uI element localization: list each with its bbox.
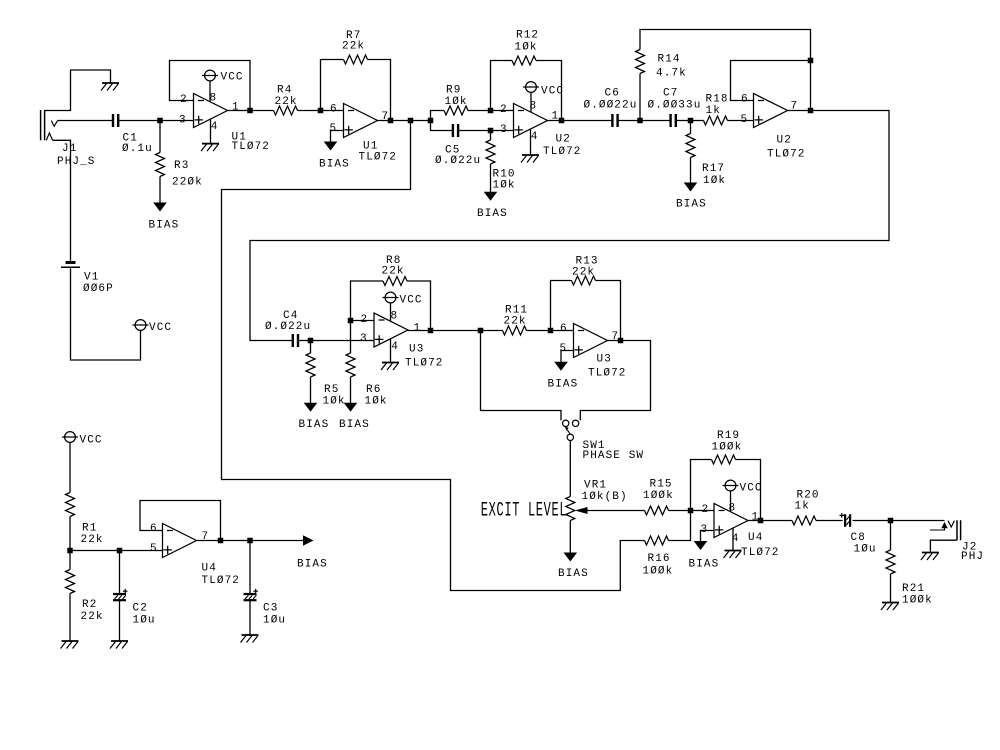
wire U1a pin 4 to ground — [210, 120, 212, 144]
svg-text:1Øk(B): 1Øk(B) — [582, 491, 628, 503]
wire node K down to R17 — [690, 121, 692, 134]
VCC label at U4b — [740, 483, 763, 495]
wire node O up to R8 — [351, 281, 384, 321]
R1 value label — [81, 534, 104, 546]
U2b pin 6 label — [741, 94, 749, 106]
C8 value label — [854, 544, 877, 556]
wire R8 down to U3a output node — [407, 281, 431, 331]
svg-text:1Øk: 1Øk — [365, 396, 388, 408]
ground symbol at U3a pin 4 — [381, 363, 399, 371]
U4b pin 4 label — [732, 533, 740, 545]
R20 reference label — [797, 490, 820, 502]
C1 value label — [122, 143, 153, 155]
R7 reference label — [346, 30, 361, 42]
svg-text:22k: 22k — [275, 96, 298, 108]
BIAS tail arrow below R5 — [304, 403, 318, 412]
svg-text:4: 4 — [391, 341, 399, 353]
C2 value label — [133, 615, 156, 627]
wire C5 to node H — [458, 130, 490, 132]
svg-text:R4: R4 — [277, 85, 292, 97]
wire J1 tip to C1 — [58, 120, 113, 122]
node I at U2a output — [559, 118, 565, 124]
C4 reference label — [283, 310, 298, 322]
wire node L down to output node — [810, 61, 812, 111]
svg-text:5: 5 — [150, 543, 158, 555]
switch SW1 pole contact — [567, 434, 573, 440]
U3b pin 5 label — [560, 343, 568, 355]
svg-text:U4: U4 — [748, 532, 763, 544]
node G junction R9/R12/U2 pin2 — [488, 108, 494, 114]
svg-text:6: 6 — [150, 523, 158, 535]
C1 reference label — [123, 133, 138, 145]
capacitor C7 — [671, 114, 676, 127]
op-amp U1 (second half) — [344, 104, 378, 138]
R18 reference label — [706, 94, 729, 106]
R21 reference label — [902, 583, 925, 595]
node Z at U4a output — [218, 538, 224, 544]
wire C8 to node W — [853, 520, 891, 522]
wire R20 to C8 — [816, 520, 843, 522]
wire R10 to BIAS arrow — [490, 164, 492, 192]
resistor R13 — [572, 276, 596, 285]
R6 reference label — [366, 384, 381, 396]
R16 reference label — [648, 553, 671, 565]
J2 reference label — [962, 542, 977, 554]
BIAS net label below U4b pin3 — [689, 559, 720, 571]
U4b pin 3 label — [701, 524, 709, 536]
U3a reference label — [409, 344, 424, 356]
U2b pin 5 label — [741, 114, 749, 126]
R16 value label — [643, 566, 674, 578]
resistor R21 — [886, 550, 895, 574]
svg-text:VCC: VCC — [541, 86, 564, 98]
svg-text:2: 2 — [180, 94, 188, 106]
U4a value label — [202, 575, 241, 587]
U4a pin 5 label — [150, 543, 158, 555]
svg-text:1Øk: 1Øk — [703, 175, 726, 187]
U2a pin 2 label — [500, 104, 508, 116]
node K junction C7/R17/R18 — [688, 118, 694, 124]
wire U4a feedback pin7 to pin6 — [140, 501, 221, 541]
BIAS net label below R3 — [149, 220, 180, 232]
U4b value label — [741, 547, 780, 559]
wire node R to U3b pin 6 — [551, 330, 574, 332]
svg-text:R19: R19 — [717, 430, 740, 442]
BIAS tail arrow below R10 — [484, 192, 498, 201]
svg-text:1Øk: 1Øk — [493, 180, 516, 192]
power VCC symbol at U4b pin 8 — [723, 480, 739, 491]
svg-text:R15: R15 — [650, 479, 673, 491]
svg-text:PHJ: PHJ — [961, 551, 984, 563]
U3a pin 1 label — [414, 323, 422, 335]
svg-text:R5: R5 — [324, 384, 339, 396]
R12 reference label — [516, 30, 539, 42]
R7 value label — [342, 41, 365, 53]
svg-text:8: 8 — [729, 503, 737, 515]
wire dry signal to lower mixer bus — [222, 121, 645, 591]
wire VCC to U3a pin 8 — [390, 303, 392, 321]
wire U4b pin 4 to ground — [732, 527, 734, 550]
U2a value label — [543, 146, 582, 158]
wire U1b pin 5 stub — [331, 131, 344, 143]
wire U1b output run — [378, 120, 431, 122]
svg-text:U2: U2 — [556, 134, 571, 146]
U4b pin 2 label — [702, 504, 710, 516]
op-amp U2 (second half) — [754, 94, 788, 128]
resistor R18 — [704, 116, 728, 125]
wire node AA down to C3 — [249, 541, 251, 595]
svg-text:1Øu: 1Øu — [133, 615, 156, 627]
ground symbol below R21 — [881, 603, 899, 611]
svg-text:6: 6 — [741, 94, 749, 106]
U3b pin 6 label — [560, 323, 568, 335]
wire VR1 bottom to BIAS arrow — [569, 521, 571, 554]
wire R4 to node C — [298, 110, 321, 112]
resistor R12 — [512, 56, 536, 65]
wire node C up to R7 — [321, 60, 344, 111]
svg-text:C6: C6 — [605, 88, 620, 100]
U1a pin 8 label — [210, 93, 218, 105]
wire node X to node Y — [70, 550, 120, 552]
R5 reference label — [324, 384, 339, 396]
wire VCC to U2a pin 8 — [530, 92, 532, 112]
svg-text:TLØ72: TLØ72 — [359, 152, 398, 164]
U1a pin 4 label — [211, 121, 219, 133]
svg-text:3: 3 — [360, 333, 368, 345]
R11 reference label — [505, 305, 528, 317]
svg-text:R18: R18 — [706, 94, 729, 106]
R9 value label — [445, 96, 468, 108]
svg-text:2: 2 — [500, 104, 508, 116]
node A junction C1/R3/U1 pin3 — [157, 118, 163, 124]
power VCC symbol at U3a pin 8 — [383, 292, 399, 303]
wire R17 to BIAS arrow — [690, 158, 692, 184]
VCC label at U2a — [541, 86, 564, 98]
wire C7 to node K — [676, 120, 691, 122]
wire R2 to ground — [69, 594, 71, 641]
wire node H to U2a pin 3 — [491, 130, 514, 132]
R21 value label — [902, 595, 933, 607]
wire node A down to R3 — [159, 121, 161, 153]
C7 reference label — [663, 88, 678, 100]
U4a reference label — [202, 563, 217, 575]
R1 reference label — [82, 523, 97, 535]
wire U3a pin 4 to ground — [390, 339, 392, 363]
U2b value label — [767, 149, 806, 161]
R4 reference label — [277, 85, 292, 97]
capacitor C2 electrolytic — [113, 589, 128, 600]
wire U4b output to R20 — [748, 520, 792, 522]
svg-text:1: 1 — [414, 323, 422, 335]
BIAS net label below R10 — [477, 208, 508, 220]
wire C1 to node A — [119, 120, 160, 122]
wire U2a pin 4 to ground — [530, 129, 532, 155]
wire U3b pin 5 stub — [561, 351, 574, 363]
R10 reference label — [493, 169, 516, 181]
svg-text:22Øk: 22Øk — [172, 177, 203, 189]
svg-text:22k: 22k — [81, 534, 104, 546]
wire node A to U1 pin 3 — [160, 120, 194, 122]
R5 value label — [323, 396, 346, 408]
R14 reference label — [658, 54, 681, 66]
svg-text:1ØØk: 1ØØk — [712, 442, 743, 454]
U2a pin 4 label — [531, 131, 539, 143]
wire R3 to BIAS arrow — [159, 177, 161, 203]
VCC label at bias divider — [80, 435, 103, 447]
svg-text:22k: 22k — [342, 41, 365, 53]
ground symbol at U1a pin 4 — [201, 144, 219, 152]
op-amp U4 (first half) — [163, 524, 197, 558]
wire battery V1 to VCC symbol — [71, 268, 141, 360]
svg-text:5: 5 — [330, 123, 338, 135]
svg-text:VCC: VCC — [740, 483, 763, 495]
wire node X to R2 — [69, 551, 71, 570]
resistor R17 — [686, 134, 695, 158]
wire node N to U3a pin 3 — [311, 340, 375, 342]
svg-text:TLØ72: TLØ72 — [543, 146, 582, 158]
wire R12 down to U2a output node — [536, 61, 562, 121]
BIAS tail arrow below VR1 — [564, 553, 578, 562]
wire node U to U4b pin 2 — [691, 510, 715, 512]
svg-text:4: 4 — [211, 121, 219, 133]
U3a pin 4 label — [391, 341, 399, 353]
switch SW1 left contact — [563, 420, 569, 426]
BIAS net label below U3b pin5 — [548, 379, 579, 391]
svg-text:4.7k: 4.7k — [656, 68, 687, 80]
resistor R1 — [66, 493, 75, 517]
svg-text:1k: 1k — [795, 501, 810, 513]
R14 value label — [656, 68, 687, 80]
U2b reference label — [777, 135, 792, 147]
switch SW1 lever arrow — [565, 427, 571, 435]
V1 value label — [83, 283, 114, 295]
node N junction C4/R5/U3 pin3 — [308, 338, 314, 344]
resistor R3 — [156, 153, 165, 177]
node C junction R4/R7/U1 pin6 — [318, 108, 324, 114]
wire node Y down to C2 — [119, 551, 121, 595]
svg-text:1Øu: 1Øu — [854, 544, 877, 556]
svg-text:2: 2 — [361, 314, 369, 326]
svg-text:BIAS: BIAS — [548, 379, 579, 391]
battery V1 — [61, 263, 80, 268]
op-amp U2 (first half) — [514, 104, 548, 138]
wire J1 frame to chassis ground — [45, 70, 111, 111]
svg-text:7: 7 — [202, 531, 210, 543]
BIAS source arrow right — [303, 535, 314, 545]
wire U4a output to BIAS arrow — [197, 540, 304, 542]
SW1 value label — [583, 450, 645, 462]
wire U1a feedback loop pin1 to pin2 — [170, 61, 251, 111]
wire VR1 wiper to R15 — [588, 510, 645, 512]
C6 value label — [584, 100, 638, 112]
svg-text:1: 1 — [232, 102, 240, 114]
U2a pin 3 label — [500, 124, 508, 136]
svg-text:1Øk: 1Øk — [445, 96, 468, 108]
svg-text:VCC: VCC — [400, 295, 423, 307]
svg-text:BIAS: BIAS — [319, 159, 350, 171]
wire node Y to U4a pin 5 — [120, 550, 163, 552]
C7 value label — [648, 100, 702, 112]
node J junction C6/C7/R14 — [637, 118, 643, 124]
svg-text:R3: R3 — [174, 160, 189, 172]
node X bias divider midpoint — [67, 548, 73, 554]
C3 reference label — [263, 603, 278, 615]
R18 value label — [706, 105, 721, 117]
svg-text:R1: R1 — [82, 523, 97, 535]
svg-text:6: 6 — [330, 103, 338, 115]
wire node U up to R19 — [691, 460, 712, 511]
node V at U4b output — [758, 518, 764, 524]
wire R21 to ground — [890, 574, 892, 602]
capacitor C4 — [293, 334, 298, 347]
capacitor C8 electrolytic — [840, 513, 851, 527]
resistor R14 — [636, 50, 645, 74]
BIAS net label below R5 — [299, 419, 330, 431]
BIAS net label below R17 — [676, 199, 707, 211]
node E dry-signal tap — [408, 118, 414, 124]
node Y junction C2/U4 pin5 — [117, 548, 123, 554]
U1b reference label — [363, 141, 378, 153]
node R junction R11/R13/U3 pin6 — [548, 328, 554, 334]
resistor R5 — [306, 353, 315, 377]
ground chassis symbol at J1 — [101, 83, 119, 91]
R2 reference label — [82, 599, 97, 611]
R15 value label — [643, 490, 674, 502]
wire U1a output to R4 — [228, 110, 274, 112]
R20 value label — [795, 501, 810, 513]
svg-text:U2: U2 — [777, 135, 792, 147]
power VCC symbol at U1a pin 8 — [202, 70, 218, 81]
wire R1 to node X — [69, 517, 71, 551]
svg-text:EXCIT LEVEL: EXCIT LEVEL — [481, 499, 567, 522]
capacitor C6 — [612, 114, 617, 127]
svg-text:PHJ_S: PHJ_S — [57, 156, 96, 168]
wire R19 down to U4b output node — [736, 460, 761, 521]
U2a pin 8 label — [530, 101, 538, 113]
resistor R16 — [645, 536, 669, 545]
ground symbol at U2a pin 4 — [521, 155, 539, 163]
J1 value label — [57, 156, 96, 168]
wire U2b feedback pin6 loop — [731, 61, 811, 101]
BIAS net label below VR1 — [558, 568, 589, 580]
svg-text:C3: C3 — [263, 603, 278, 615]
svg-text:TLØ72: TLØ72 — [202, 575, 241, 587]
resistor R2 — [66, 570, 75, 594]
U4b pin 8 label — [729, 503, 737, 515]
capacitor C5 — [453, 124, 458, 137]
resistor R10 — [486, 140, 495, 164]
svg-text:R21: R21 — [902, 583, 925, 595]
R17 value label — [703, 175, 726, 187]
svg-text:1Øk: 1Øk — [323, 396, 346, 408]
wire node J to C7 — [640, 120, 671, 122]
U1b value label — [359, 152, 398, 164]
U1a pin 2 label — [180, 94, 188, 106]
wire R14 top feedback to U2b output — [640, 30, 811, 61]
U3a value label — [405, 358, 444, 370]
svg-text:1Øk: 1Øk — [515, 42, 538, 54]
U3b pin 7 label — [612, 331, 620, 343]
BIAS tail arrow below R17 — [684, 183, 698, 192]
svg-text:R2: R2 — [82, 599, 97, 611]
R3 reference label — [174, 160, 189, 172]
connector J2 output phone jack PHJ — [930, 520, 961, 540]
VR1 value label — [582, 491, 628, 503]
svg-text:VR1: VR1 — [584, 480, 607, 492]
U3b value label — [588, 368, 627, 380]
wire J2 sleeve to ground — [930, 540, 957, 552]
op-amp U4 (second half) — [714, 504, 748, 538]
U2a pin 1 label — [552, 111, 560, 123]
svg-text:U4: U4 — [202, 563, 217, 575]
resistor R6 — [346, 353, 355, 377]
U4a pin 6 label — [150, 523, 158, 535]
svg-text:1ØØk: 1ØØk — [643, 490, 674, 502]
C4 value label — [265, 321, 311, 333]
wire R18 to U2b pin 5 — [728, 120, 754, 122]
wire VCC to U1a pin 8 — [209, 81, 211, 102]
BIAS tail arrow below R3 — [153, 203, 167, 212]
op-amp U3 (second half) — [574, 324, 608, 358]
EXCIT LEVEL label — [481, 499, 567, 522]
wire VCC to R1 — [69, 442, 71, 492]
U1b pin 5 label — [330, 123, 338, 135]
svg-text:4: 4 — [531, 131, 539, 143]
R2 value label — [81, 611, 104, 623]
C6 reference label — [605, 88, 620, 100]
svg-text:BIAS: BIAS — [339, 419, 370, 431]
U1b pin 6 label — [330, 103, 338, 115]
node P at U3a output — [428, 328, 434, 334]
R17 reference label — [702, 163, 725, 175]
wire node H down to R10 — [490, 131, 492, 141]
svg-text:U3: U3 — [409, 344, 424, 356]
BIAS tail arrow below U1b pin 5 — [324, 142, 338, 151]
J2 value label — [961, 551, 984, 563]
ground symbol below R2 — [61, 641, 79, 649]
wire U3a output to R11 — [408, 330, 503, 332]
wire node O down through pin3 wire to R6 — [350, 321, 352, 354]
svg-text:R16: R16 — [648, 553, 671, 565]
U1a value label — [232, 141, 271, 153]
wire C2 to ground — [119, 600, 121, 641]
svg-text:BIAS: BIAS — [676, 199, 707, 211]
J1 reference label — [62, 143, 77, 155]
svg-text:Ø.Ø22u: Ø.Ø22u — [435, 155, 481, 167]
BIAS tail arrow below U4b pin 3 — [694, 541, 708, 550]
svg-text:2: 2 — [702, 504, 710, 516]
wire R5 to BIAS arrow — [310, 377, 312, 403]
node L feedback top — [808, 58, 814, 64]
power VCC symbol at U2a pin 8 — [523, 82, 539, 93]
wire node K to R18 — [691, 120, 704, 122]
C8 reference label — [851, 532, 866, 544]
U3b reference label — [597, 354, 612, 366]
wire node G to U2a pin 2 — [491, 110, 514, 112]
power VCC symbol at bias divider — [62, 432, 78, 443]
R3 value label — [172, 177, 203, 189]
wire R6 to BIAS arrow — [350, 377, 352, 403]
svg-text:BIAS: BIAS — [299, 419, 330, 431]
svg-text:TLØ72: TLØ72 — [405, 358, 444, 370]
U3a pin 2 label — [361, 314, 369, 326]
BIAS tail arrow below R6 — [344, 403, 358, 412]
resistor R15 — [645, 506, 669, 515]
svg-text:Ø.ØØ22u: Ø.ØØ22u — [584, 100, 638, 112]
capacitor C3 electrolytic — [244, 589, 259, 600]
wire node R up to R13 — [551, 281, 572, 331]
U4a pin 7 label — [202, 531, 210, 543]
